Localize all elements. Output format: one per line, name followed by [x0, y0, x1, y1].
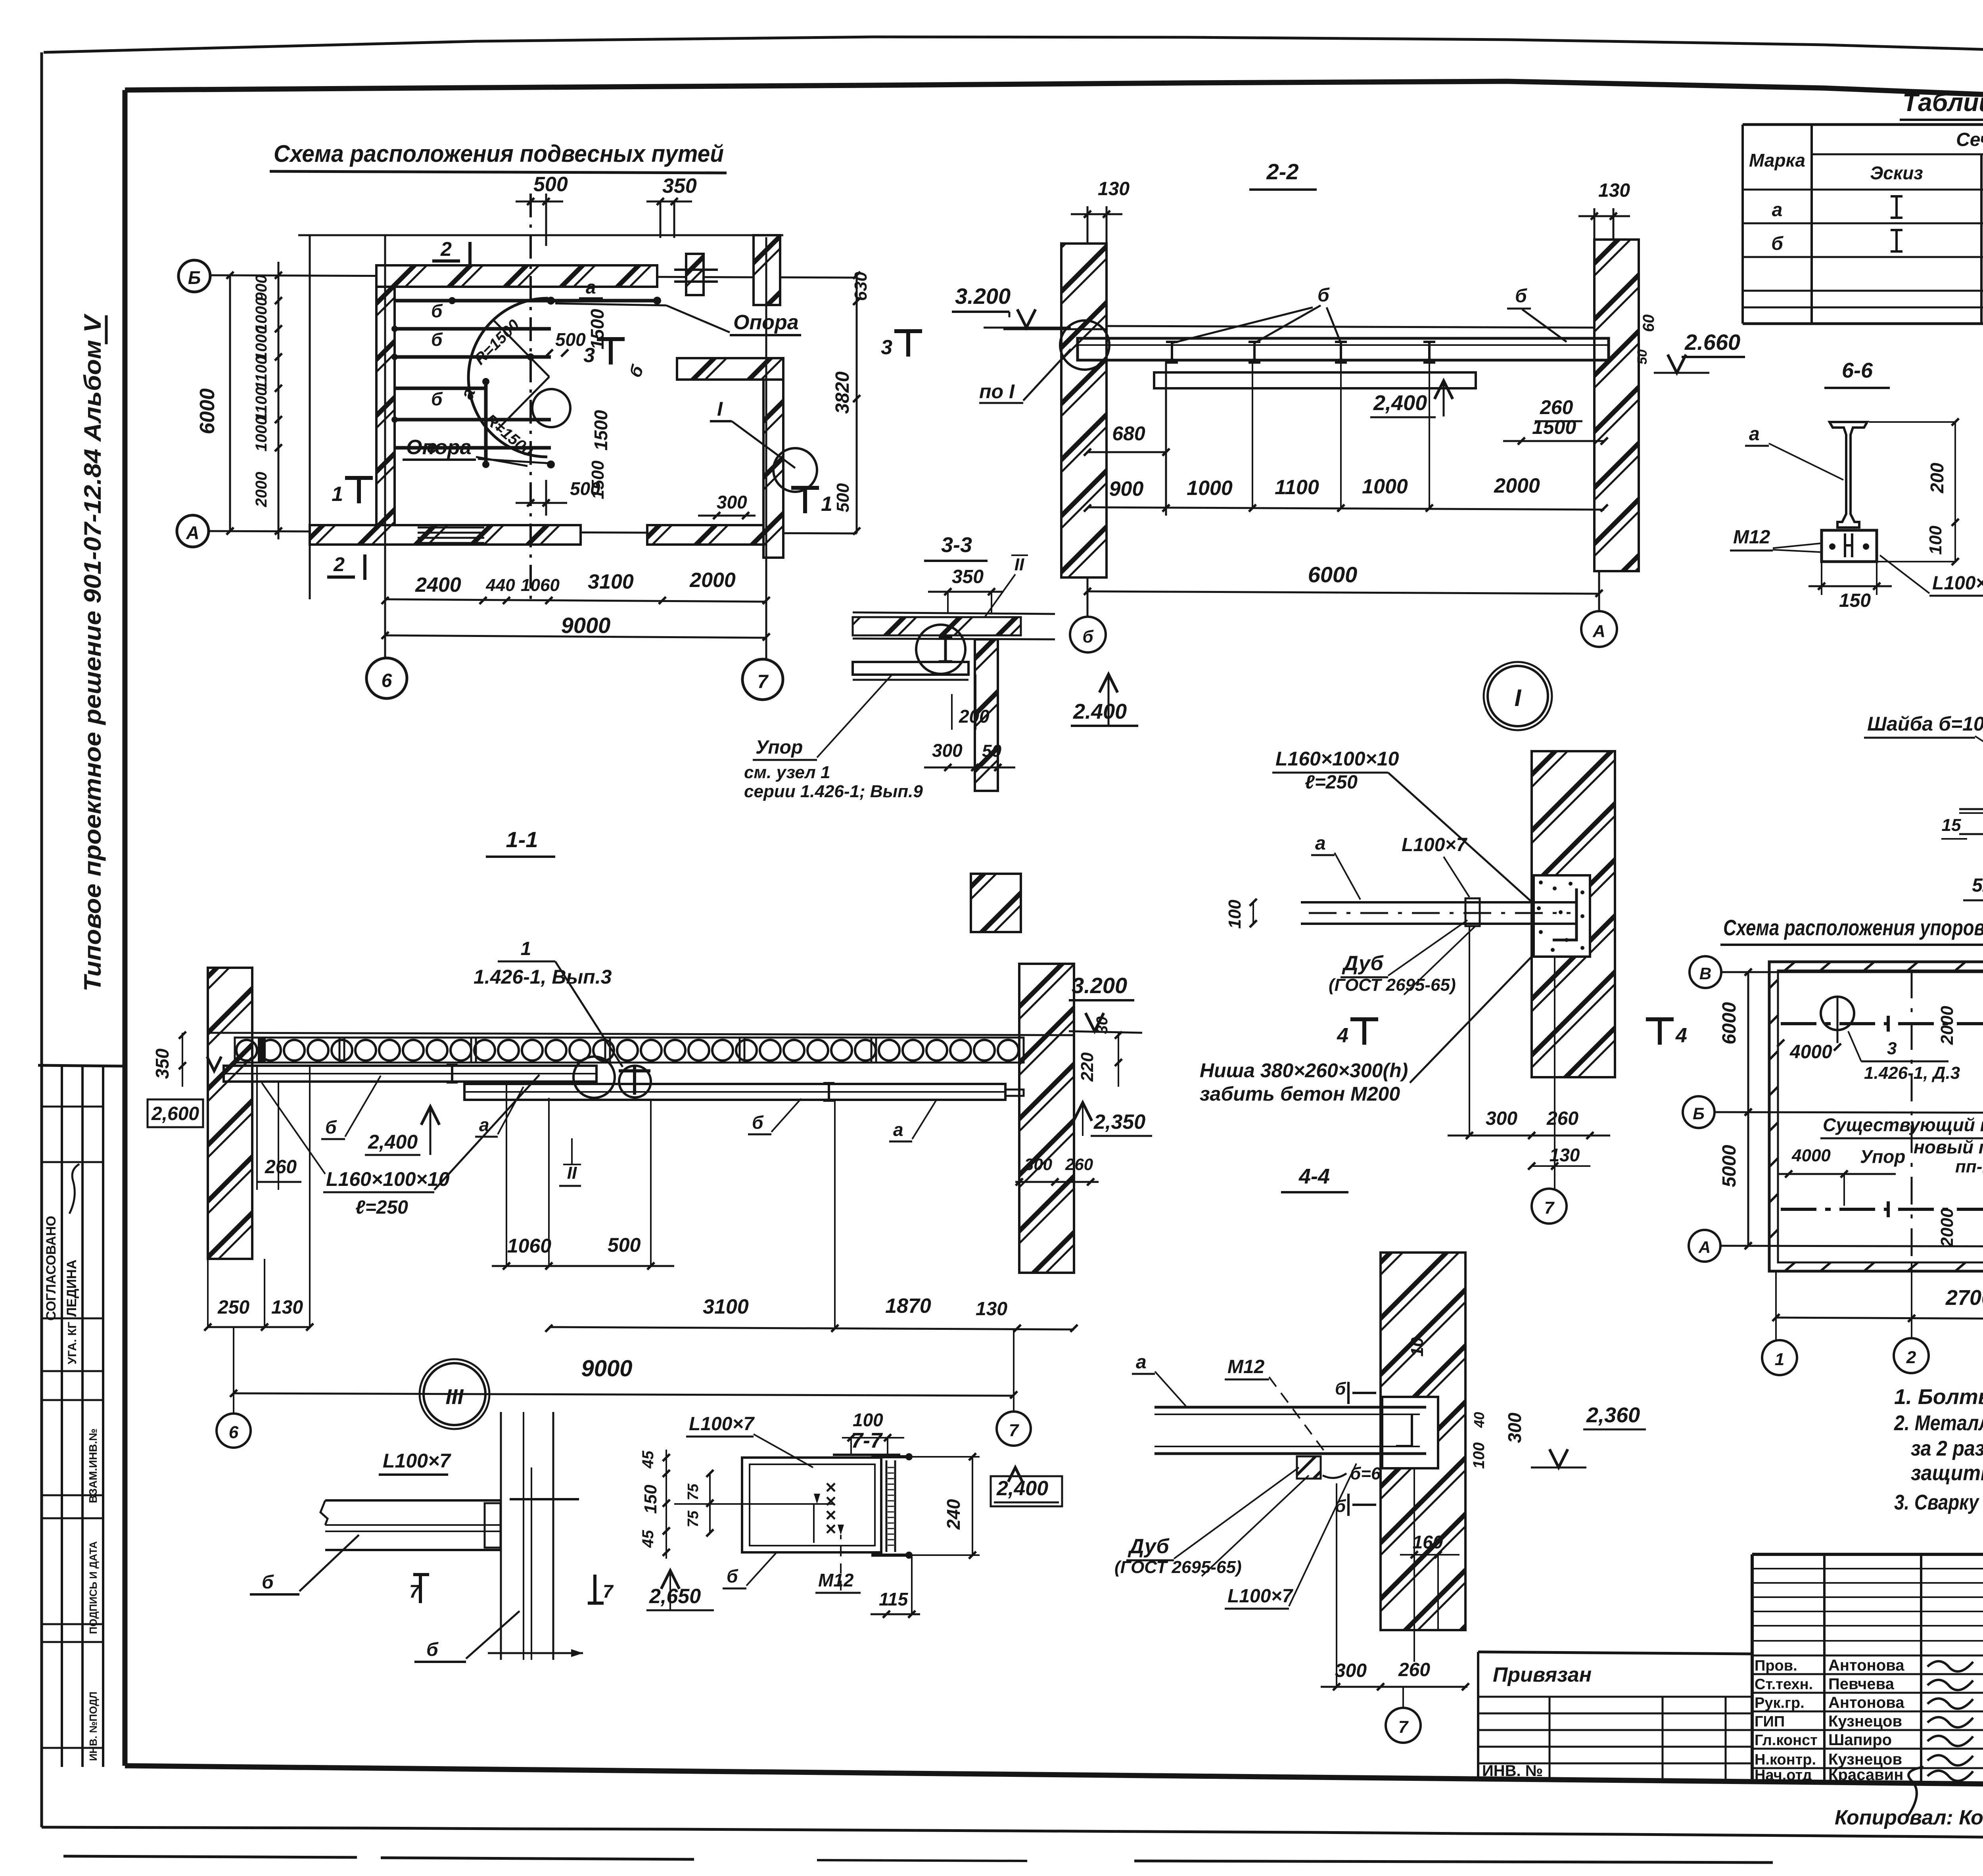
svg-text:1100: 1100: [253, 356, 270, 390]
svg-text:3.200: 3.200: [955, 284, 1011, 309]
svg-text:Дуб: Дуб: [1128, 1535, 1170, 1558]
svg-text:серии 1.426-1; Вып.9: серии 1.426-1; Вып.9: [744, 782, 923, 801]
svg-text:Красавин: Красавин: [1828, 1766, 1903, 1784]
svg-text:300: 300: [1486, 1108, 1517, 1129]
svg-text:Опора: Опора: [406, 436, 472, 459]
svg-text:L100×7: L100×7: [1402, 834, 1467, 856]
svg-text:М12: М12: [1227, 1356, 1265, 1377]
svg-text:ВЗАМ.ИНВ.№: ВЗАМ.ИНВ.№: [87, 1429, 99, 1503]
svg-text:200: 200: [1927, 462, 1947, 493]
svg-text:6: 6: [382, 670, 392, 691]
svg-text:500: 500: [555, 329, 586, 350]
svg-text:2000: 2000: [1937, 1006, 1957, 1045]
svg-text:45: 45: [639, 1530, 657, 1548]
svg-text:(ГОСТ 2695-65): (ГОСТ 2695-65): [1114, 1558, 1242, 1577]
svg-text:пп-1: пп-1: [1955, 1157, 1983, 1176]
svg-text:L100×7: L100×7: [383, 1450, 451, 1472]
svg-text:100: 100: [1225, 900, 1245, 929]
svg-text:350: 350: [952, 566, 984, 587]
svg-text:100: 100: [853, 1410, 883, 1430]
svg-text:а: а: [1772, 199, 1783, 221]
svg-text:3.200: 3.200: [1072, 973, 1127, 998]
svg-text:500: 500: [833, 483, 853, 512]
svg-text:300: 300: [1335, 1660, 1367, 1681]
svg-text:5000: 5000: [1719, 1145, 1740, 1187]
svg-text:а: а: [586, 277, 596, 297]
svg-text:40: 40: [1471, 1412, 1487, 1428]
svg-text:(ГОСТ 2695-65): (ГОСТ 2695-65): [1329, 975, 1456, 995]
svg-text:б: б: [325, 1117, 337, 1137]
svg-text:1.426-1, Вып.3: 1.426-1, Вып.3: [474, 966, 612, 988]
svg-text:защитный слой не наносится.: защитный слой не наносится.: [1911, 1461, 1983, 1485]
svg-text:1000: 1000: [1187, 477, 1233, 500]
svg-text:Дуб: Дуб: [1342, 952, 1384, 975]
svg-text:ℓ=250: ℓ=250: [355, 1197, 408, 1218]
svg-text:1100: 1100: [253, 387, 270, 421]
svg-text:3100: 3100: [588, 570, 634, 593]
svg-text:1000: 1000: [253, 326, 270, 361]
svg-text:2. Металлоконструкции окрасить: 2. Металлоконструкции окрасить масляной …: [1894, 1411, 1983, 1435]
svg-text:1500: 1500: [591, 410, 611, 451]
svg-text:Эскиз: Эскиз: [1870, 163, 1923, 183]
svg-text:350: 350: [152, 1048, 173, 1079]
svg-text:Певчева: Певчева: [1828, 1675, 1895, 1693]
svg-text:130: 130: [1550, 1145, 1580, 1165]
svg-text:ИНВ. №: ИНВ. №: [1482, 1762, 1543, 1780]
svg-text:9000: 9000: [561, 613, 611, 638]
svg-text:Ниша 380×260×300(h): Ниша 380×260×300(h): [1200, 1059, 1408, 1082]
svg-text:7: 7: [1544, 1198, 1555, 1218]
svg-text:Существующий подкра-: Существующий подкра-: [1823, 1114, 1983, 1135]
svg-text:300: 300: [1024, 1155, 1052, 1174]
svg-text:1. Болты нормальной точности М: 1. Болты нормальной точности М12 ГОСТ 77…: [1894, 1385, 1983, 1409]
svg-text:б: б: [1318, 285, 1330, 306]
svg-text:50: 50: [982, 741, 1001, 761]
svg-text:ПОДПИСЬ И ДАТА: ПОДПИСЬ И ДАТА: [87, 1541, 99, 1634]
svg-text:6000: 6000: [1719, 1002, 1740, 1044]
svg-text:500: 500: [570, 478, 600, 499]
svg-text:В: В: [1699, 964, 1711, 983]
svg-text:7: 7: [1009, 1421, 1020, 1440]
svg-text:680: 680: [1112, 422, 1145, 445]
svg-text:220: 220: [1078, 1052, 1097, 1082]
svg-text:ИНВ. №ПОДЛ: ИНВ. №ПОДЛ: [87, 1692, 99, 1761]
svg-text:I: I: [717, 398, 723, 420]
svg-text:б: б: [1515, 286, 1527, 307]
svg-text:Рук.гр.: Рук.гр.: [1755, 1695, 1805, 1711]
svg-text:2.400: 2.400: [1073, 700, 1127, 723]
svg-text:150: 150: [641, 1485, 660, 1514]
svg-text:1060: 1060: [507, 1235, 551, 1257]
svg-text:б: б: [1771, 233, 1784, 254]
svg-text:а: а: [479, 1114, 489, 1135]
svg-text:2: 2: [1906, 1348, 1916, 1367]
svg-text:630: 630: [851, 272, 871, 301]
svg-text:45: 45: [639, 1450, 657, 1469]
svg-text:Схема расположения подвесныx п: Схема расположения подвесныx путей: [274, 140, 724, 167]
svg-text:II: II: [567, 1163, 577, 1183]
svg-text:L160×100×10: L160×100×10: [1275, 748, 1399, 770]
svg-text:б: б: [431, 329, 443, 350]
svg-text:ГИП: ГИП: [1755, 1713, 1785, 1730]
svg-text:УГА. КГ: УГА. КГ: [66, 1322, 79, 1364]
svg-text:Марка: Марка: [1749, 150, 1805, 171]
svg-text:Схема расположения упоров: Схема расположения упоров: [1723, 915, 1983, 940]
svg-text:СОГЛАСОВАНО: СОГЛАСОВАНО: [44, 1216, 59, 1321]
svg-text:1000: 1000: [1362, 475, 1408, 498]
svg-text:а: а: [1749, 424, 1760, 445]
svg-text:1: 1: [521, 938, 531, 959]
svg-text:1500: 1500: [1532, 416, 1576, 438]
svg-text:Антонова: Антонова: [1828, 1657, 1904, 1674]
svg-text:300: 300: [717, 492, 747, 512]
svg-text:240: 240: [943, 1499, 964, 1530]
svg-text:9000: 9000: [581, 1356, 632, 1381]
svg-text:б: б: [1335, 1379, 1346, 1398]
svg-text:см. узел 1: см. узел 1: [744, 763, 830, 782]
svg-text:3-3: 3-3: [941, 533, 972, 557]
svg-text:500: 500: [608, 1234, 641, 1256]
svg-text:Б: Б: [188, 267, 201, 288]
svg-text:А: А: [186, 522, 199, 543]
svg-text:Кузнецов: Кузнецов: [1828, 1751, 1902, 1768]
svg-text:115: 115: [879, 1589, 909, 1609]
svg-text:6-6: 6-6: [1842, 359, 1873, 382]
svg-text:2000: 2000: [689, 569, 736, 592]
svg-text:2.660: 2.660: [1684, 330, 1740, 355]
svg-text:б: б: [431, 389, 443, 409]
svg-text:ℓ=250: ℓ=250: [1305, 772, 1358, 793]
svg-text:1: 1: [332, 483, 343, 506]
svg-text:2,400: 2,400: [1373, 391, 1427, 415]
svg-text:3: 3: [881, 336, 892, 359]
svg-text:4000: 4000: [1791, 1146, 1831, 1165]
svg-text:150: 150: [1839, 590, 1871, 611]
svg-text:160: 160: [1413, 1532, 1443, 1552]
svg-text:6000: 6000: [196, 388, 219, 434]
svg-text:50: 50: [1635, 349, 1650, 364]
svg-text:Привязан: Привязан: [1493, 1663, 1592, 1686]
svg-text:7: 7: [603, 1581, 614, 1602]
svg-text:2400: 2400: [415, 574, 461, 597]
svg-text:ЛЕДИНА: ЛЕДИНА: [64, 1260, 79, 1317]
svg-text:1100: 1100: [1275, 476, 1319, 499]
svg-text:а: а: [1315, 833, 1326, 854]
svg-text:3820: 3820: [832, 371, 853, 414]
svg-text:М12: М12: [1733, 527, 1770, 548]
svg-text:Сечение: Сечение: [1956, 129, 1983, 150]
svg-text:1: 1: [821, 493, 832, 516]
svg-text:А: А: [1698, 1238, 1711, 1256]
svg-text:Антонова: Антонова: [1828, 1694, 1904, 1711]
svg-text:забить бетон М200: забить бетон М200: [1200, 1083, 1400, 1105]
svg-text:I: I: [1515, 685, 1522, 711]
svg-text:130: 130: [1598, 180, 1630, 201]
svg-text:1-1: 1-1: [506, 827, 538, 852]
svg-text:Кузнецов: Кузнецов: [1828, 1713, 1902, 1730]
svg-text:Б: Б: [1693, 1104, 1705, 1123]
svg-text:б: б: [727, 1566, 738, 1586]
svg-text:Копировал: Корецкая: Копировал: Корецкая: [1835, 1806, 1983, 1829]
svg-text:30: 30: [1093, 1017, 1111, 1034]
svg-text:2000: 2000: [1937, 1208, 1957, 1247]
svg-text:L100×7: L100×7: [689, 1414, 755, 1435]
svg-text:2,360: 2,360: [1586, 1403, 1640, 1427]
svg-text:27000: 27000: [1945, 1286, 1983, 1310]
svg-text:7-7: 7-7: [851, 1429, 883, 1452]
svg-text:3. Сварку вести электродами Э-: 3. Сварку вести электродами Э-42 ГОСТ 94…: [1894, 1490, 1983, 1514]
svg-text:2: 2: [333, 553, 345, 575]
svg-text:Н.контр.: Н.контр.: [1755, 1751, 1816, 1768]
svg-text:100: 100: [1470, 1442, 1488, 1469]
svg-text:6: 6: [229, 1423, 239, 1442]
svg-text:б: б: [426, 1639, 439, 1660]
svg-text:б: б: [1082, 627, 1094, 646]
svg-text:а: а: [893, 1119, 903, 1140]
svg-text:Типовое проектное решение 901: Типовое проектное решение 901-07-12.84 А…: [79, 313, 106, 992]
svg-text:L100×7: L100×7: [1932, 573, 1983, 594]
svg-text:1870: 1870: [885, 1295, 931, 1318]
svg-text:а: а: [1136, 1352, 1147, 1373]
svg-text:500: 500: [533, 173, 568, 196]
svg-text:200: 200: [959, 706, 990, 727]
svg-text:L100×7: L100×7: [1227, 1586, 1293, 1607]
svg-text:Упор: Упор: [1860, 1146, 1905, 1167]
svg-text:Шайба б=10: Шайба б=10: [1867, 713, 1983, 735]
svg-text:по I: по I: [979, 380, 1015, 403]
svg-text:2000: 2000: [1494, 474, 1540, 497]
svg-text:2000: 2000: [253, 472, 270, 508]
svg-text:III: III: [445, 1385, 464, 1409]
svg-text:II: II: [1015, 555, 1024, 574]
svg-text:900: 900: [1109, 478, 1144, 501]
svg-text:100: 100: [1926, 526, 1945, 555]
svg-text:7: 7: [1398, 1717, 1409, 1737]
svg-text:Нач.отд: Нач.отд: [1755, 1767, 1812, 1784]
svg-text:260: 260: [1540, 396, 1573, 418]
svg-text:52: 52: [1972, 875, 1983, 896]
svg-text:2: 2: [440, 238, 452, 260]
svg-text:350: 350: [662, 175, 697, 198]
svg-text:260: 260: [265, 1157, 297, 1178]
svg-text:60: 60: [1640, 315, 1657, 332]
svg-text:М12: М12: [818, 1570, 854, 1590]
svg-text:3100: 3100: [703, 1295, 749, 1318]
svg-text:2,650: 2,650: [649, 1585, 701, 1608]
svg-text:за 2 раза. На ездовые поверхно: за 2 раза. На ездовые поверхности балок …: [1911, 1437, 1983, 1460]
svg-text:А: А: [1592, 621, 1605, 641]
svg-text:Гл.конст: Гл.конст: [1755, 1732, 1818, 1749]
svg-text:75: 75: [685, 1510, 702, 1527]
svg-text:7: 7: [758, 671, 769, 692]
svg-text:4: 4: [1337, 1024, 1348, 1047]
svg-text:1060: 1060: [521, 575, 560, 595]
svg-text:1000: 1000: [253, 416, 270, 452]
svg-text:б: б: [431, 301, 443, 321]
svg-text:Шапиро: Шапиро: [1828, 1731, 1892, 1749]
svg-text:900: 900: [253, 275, 270, 301]
svg-text:2-2: 2-2: [1266, 159, 1299, 184]
svg-text:130: 130: [976, 1299, 1007, 1320]
svg-text:4: 4: [1675, 1024, 1687, 1047]
svg-text:440: 440: [485, 575, 515, 595]
svg-text:130: 130: [271, 1297, 303, 1318]
svg-text:6000: 6000: [1308, 562, 1358, 587]
svg-text:7: 7: [409, 1581, 420, 1602]
svg-text:4000: 4000: [1789, 1042, 1832, 1063]
svg-text:Таблица сечений: Таблица сечений: [1902, 88, 1983, 117]
svg-text:б: б: [752, 1112, 764, 1133]
svg-text:1: 1: [1775, 1350, 1784, 1369]
svg-text:300: 300: [1504, 1412, 1525, 1443]
svg-text:260: 260: [1398, 1659, 1430, 1680]
svg-text:2,600: 2,600: [151, 1103, 199, 1124]
svg-text:130: 130: [1098, 178, 1130, 199]
svg-text:10: 10: [1408, 1337, 1427, 1356]
svg-text:б: б: [262, 1572, 274, 1593]
svg-text:300: 300: [932, 740, 963, 761]
svg-text:новый путь: новый путь: [1914, 1137, 1983, 1157]
svg-text:1.426-1, Д.3: 1.426-1, Д.3: [1864, 1063, 1960, 1083]
svg-text:Упор: Упор: [756, 737, 803, 758]
svg-text:3: 3: [1887, 1039, 1897, 1058]
svg-text:2,350: 2,350: [1093, 1111, 1145, 1134]
svg-text:75: 75: [685, 1483, 702, 1500]
svg-text:L160×100×10: L160×100×10: [326, 1168, 450, 1190]
svg-text:250: 250: [217, 1297, 249, 1318]
svg-text:Ст.техн.: Ст.техн.: [1755, 1676, 1813, 1693]
svg-text:260: 260: [1546, 1108, 1578, 1129]
svg-text:260: 260: [1065, 1155, 1093, 1174]
svg-text:2,400: 2,400: [368, 1131, 418, 1153]
svg-text:1500: 1500: [587, 309, 608, 349]
svg-text:Пров.: Пров.: [1755, 1657, 1797, 1674]
svg-text:15: 15: [1942, 815, 1961, 835]
svg-text:4-4: 4-4: [1298, 1164, 1330, 1188]
